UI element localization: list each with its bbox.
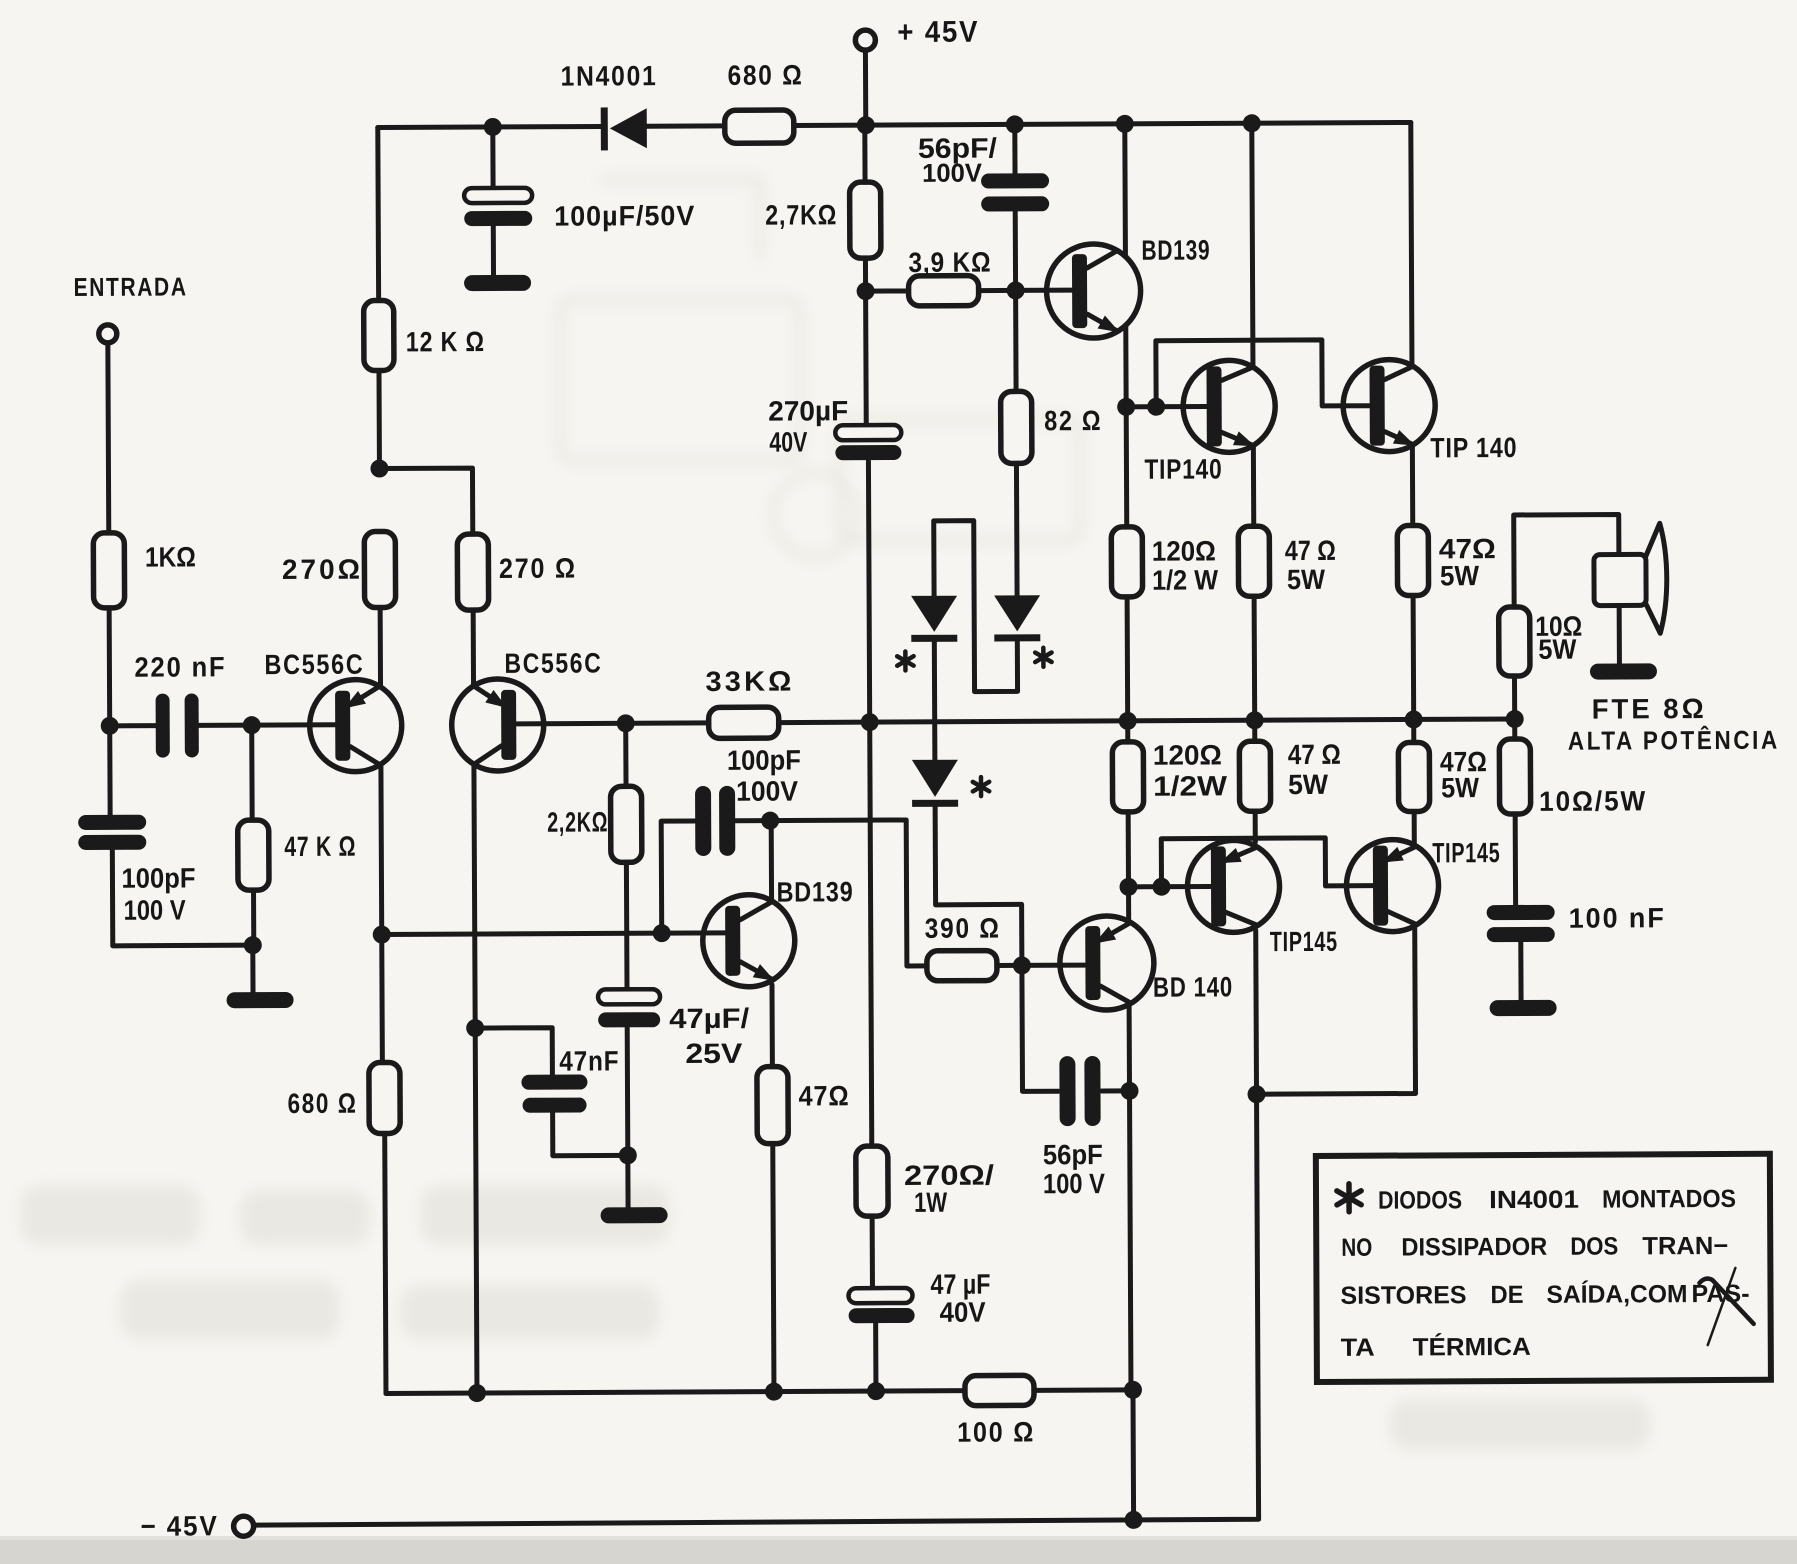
wire 2.7K bottom to bias node [863,258,868,291]
wire output rail [779,719,1515,723]
resistor 120 ohm lower [1112,742,1143,812]
svg-text:40V: 40V [769,426,807,457]
resistor 47 ohm BD139 tail [757,1067,788,1144]
svg-text:120Ω: 120Ω [1152,535,1216,566]
label 100 ohm [957,1416,1035,1447]
wire speaker to ground [1617,605,1622,664]
svg-text:ALTA POTÊNCIA: ALTA POTÊNCIA [1568,725,1780,756]
resistor 10 ohm upper [1499,607,1530,676]
resistor 47 ohm 5W upper mid [1238,526,1269,596]
wire 47 ohm upper right to rail [1411,595,1417,719]
svg-text:SAÍDA,COM: SAÍDA,COM [1546,1279,1687,1309]
svg-text:100 nF: 100 nF [1569,902,1666,933]
wire 100pF left lead [661,821,696,933]
label 47uF 40V [930,1269,990,1328]
svg-text:5W: 5W [1287,564,1326,595]
wire 2.7K top to rail [862,125,867,182]
wire BD140 collector to bottom rail [1130,1091,1131,1390]
svg-text:TRAN−: TRAN− [1642,1232,1728,1260]
wire 47 ohm lower right leads [1411,719,1417,842]
note text line 4 [1341,1332,1531,1362]
wire bias node to 270uF [863,291,869,425]
wire 10 ohm lower to 100nF [1513,814,1518,905]
label 680 ohm tail [287,1088,357,1119]
svg-text:270µF: 270µF [768,395,848,426]
wire 100pF to ground corner [112,849,252,946]
wire TIP145 base row [1129,884,1211,889]
label 47K [284,831,356,862]
transistor TIP145 left [1187,840,1279,932]
node BC556 right base [617,714,635,732]
label 100uF/50V [554,200,695,232]
label 680 ohm top [727,59,803,90]
asterisk D1 [897,651,914,670]
transistor TIP140 left [1183,360,1275,452]
note box frame [1316,1154,1771,1382]
resistor 10 ohm 5W lower [1499,739,1530,814]
svg-text:25V: 25V [685,1038,743,1069]
resistor 120 ohm upper [1111,527,1142,597]
node 56pF lower junction [1120,1082,1138,1100]
svg-text:− 45V: − 45V [141,1510,219,1541]
svg-text:100 V: 100 V [124,894,186,925]
svg-text:100V: 100V [736,775,798,806]
wire 120 ohm lower leads [1125,721,1131,887]
resistor 680 ohm tail [368,934,400,1133]
label 2.2K [547,806,608,837]
ground 100nF [1490,1000,1557,1016]
wire 47 ohm upper mid to rail [1252,596,1258,720]
wire output to 10 ohm [1512,676,1517,719]
svg-text:TIP 140: TIP 140 [1430,432,1517,463]
ground 100uF [464,275,531,291]
label TIP140 left [1144,453,1222,484]
wire 10 ohm to speaker [1514,514,1619,607]
label 1N4001 [560,60,657,91]
svg-text:1W: 1W [914,1187,948,1218]
svg-text:100V: 100V [922,158,983,188]
label 2.7K [765,199,837,230]
capacitor 47uF/40V electrolytic [848,1288,914,1323]
svg-text:SISTORES: SISTORES [1340,1281,1466,1310]
node bottom rail BC556 col [468,1384,486,1402]
label 120 ohm lower [1153,739,1228,801]
svg-text:DIODOS: DIODOS [1378,1186,1462,1214]
svg-text:47 µF: 47 µF [930,1269,990,1300]
node bottom rail right corner [1124,1381,1142,1399]
svg-text:82 Ω: 82 Ω [1044,405,1102,436]
svg-text:100 Ω: 100 Ω [957,1416,1035,1447]
wire BC556 right collector down [474,764,475,1028]
diode D3 1N4001 [912,760,958,807]
label BD139 lower [776,876,853,907]
wire TIP145 right collector down-left [1256,928,1416,1094]
wire 47uF40 to bottom rail [873,1323,878,1391]
node 47 ohm right column on rail [1405,710,1423,728]
wire top-left corner down to 12K [375,128,381,301]
svg-text:BD139: BD139 [1141,234,1210,265]
label 47 ohm 5W upper mid [1285,535,1336,595]
svg-text:BD139: BD139 [776,876,853,907]
note asterisk [1337,1184,1361,1212]
svg-text:1KΩ: 1KΩ [145,541,196,572]
wire TIP140 right emitter to 47 ohm [1410,445,1415,525]
label BD140 [1153,971,1233,1002]
capacitor 220nF [156,693,199,757]
capacitor 100pF 100V [695,786,735,856]
label ENTRADA [73,271,187,302]
wire TIP145 left collector down [1253,930,1259,1094]
svg-text:BD 140: BD 140 [1153,971,1233,1002]
label 100pF 100V [727,744,801,806]
label 12K [406,326,485,357]
bottom scan band [0,1536,1797,1564]
capacitor 47uF/25V electrolytic [598,989,660,1027]
wire 270 left to BC556 left emitter [378,608,383,687]
wire input node down to 100pF [107,726,112,815]
wire tail node to 270 ohm right [379,468,472,534]
svg-text:TIP145: TIP145 [1432,837,1500,868]
label 47uF/25V [669,1003,750,1069]
wire loop to TIP140 right base [1156,340,1369,407]
node 56pF column junction [1006,115,1024,133]
resistor 1K [93,533,124,608]
svg-text:47 Ω: 47 Ω [1285,535,1336,566]
svg-text:DOS: DOS [1570,1232,1618,1260]
wire 120 ohm upper leads [1126,407,1128,721]
label +45V [897,16,979,49]
wire 82 ohm to diode D2 [1014,463,1020,595]
node 47nF top junction [466,1019,484,1037]
svg-text:270 Ω: 270 Ω [499,553,577,584]
node TIP145 base row mid [1152,878,1170,896]
wire feedback [382,933,726,935]
svg-text:40V: 40V [940,1297,986,1328]
wire rail to 100uF [490,127,495,188]
wire bottom rail corner to -45V [1130,1390,1136,1520]
resistor 100 ohm [965,1375,1034,1405]
svg-text:33KΩ: 33KΩ [705,666,794,697]
svg-text:TA: TA [1341,1334,1375,1362]
wire 56pF lower right lead [1102,1088,1130,1093]
resistor 47 ohm 5W lower right [1398,742,1429,811]
svg-text:47 K Ω: 47 K Ω [284,831,356,862]
svg-text:680 Ω: 680 Ω [287,1088,357,1119]
note text line 1 [1378,1185,1736,1215]
svg-text:1N4001: 1N4001 [560,60,657,91]
resistor 47 ohm 5W lower mid [1239,741,1270,811]
wire 47 ohm lower mid leads [1252,720,1258,842]
wire loop to TIP145 right base [1161,838,1372,887]
svg-text:MONTADOS: MONTADOS [1602,1185,1736,1214]
wire top rail right of 680 ohm [794,122,1411,125]
label 270 ohm 1W [904,1160,995,1218]
diode D1 1N4001 [911,596,957,642]
wire 2.2K to 47uF [624,862,630,989]
wire 270 ohm 1W to 47uF40 [870,1216,875,1288]
label BC556C left [264,649,364,680]
label FTE 8 ohm [1592,693,1707,725]
wire 100 ohm to corner [1034,1387,1133,1392]
wire top rail corner down to TIP140 right collector [1411,122,1412,365]
svg-text:ENTRADA: ENTRADA [73,271,187,302]
wire BD139 collector to rail [1122,124,1128,257]
label TIP145 right [1432,837,1500,868]
wire output to 10 ohm 5W lower [1512,719,1517,739]
label 1K [145,541,196,572]
wire bottom rail [386,1391,965,1394]
wire 100nF to ground [1518,942,1523,1001]
label 10 ohm 5W lower [1539,785,1647,817]
node input column [101,717,119,735]
resistor 2.7K [850,182,881,258]
ground speaker [1590,663,1657,679]
label 10 ohm upper [1535,611,1582,665]
wire D1 cathode to D3 [932,642,938,760]
svg-text:BC556C: BC556C [504,647,602,678]
node 47K bottom junction [244,936,262,954]
label 270 ohm left [282,554,363,585]
wire 220nF to BC556 base [199,722,336,728]
svg-text:+ 45V: + 45V [897,16,979,49]
wire diode to 680 ohm resistor [647,123,725,128]
label 270uF 40V [768,395,848,457]
terminal ENTRADA [99,325,117,343]
resistor 82 ohm [1000,290,1032,463]
wire BD139 lower collector up [769,821,774,902]
resistor 2.2K [611,786,642,862]
label 390 ohm [925,913,1001,944]
wire input node to 220nF [110,723,156,728]
capacitor 100pF input [78,815,146,850]
svg-text:5W: 5W [1538,634,1577,665]
transistor BD139 upper (driver) [1046,244,1140,338]
note scribble X over PAS [1699,1268,1753,1345]
wire BD139 lower emitter to 47 ohm [769,985,774,1067]
svg-text:5W: 5W [1441,772,1480,803]
wire BD140 base junction down to 56pF [1022,965,1059,1091]
svg-text:BC556C: BC556C [264,649,364,680]
diode 1N4001 [601,107,647,150]
node TIP145 collectors junction [1247,1085,1265,1103]
wire 47nF bottom lead [553,1112,628,1155]
node 100uF junction [484,118,502,136]
wire 47 ohm tail to bottom rail [773,1144,774,1392]
label BD139 upper [1141,234,1210,265]
wire TIP140 left collector up [1252,123,1253,367]
wire 100uF to ground [491,226,496,276]
wire 270uF to output rail [868,461,869,722]
ghost print-through letters [20,1185,1650,1450]
svg-text:5W: 5W [1440,560,1480,591]
wire TIP140 left emitter to 47 ohm [1251,445,1256,526]
label 56pF top [918,133,997,188]
resistor 12K [364,300,394,370]
wire 390 ohm left loop [735,820,927,967]
resistor 680 ohm top [725,110,794,143]
node 47nF junction [619,1146,637,1164]
ground input network [227,992,294,1008]
node BD140 base junction [1013,956,1031,974]
svg-text:100pF: 100pF [121,862,195,893]
label 220nF [134,651,226,682]
wire 47uF to ground [625,1027,631,1207]
asterisk D2 [1035,648,1052,667]
resistor 390 ohm [927,951,997,981]
wire base row to TIP140 left [1126,404,1206,409]
wire BC556 right collector to bottom rail [475,1028,477,1393]
svg-text:220 nF: 220 nF [134,651,226,682]
wire 680 ohm to bottom rail corner [385,1134,386,1394]
svg-text:680 Ω: 680 Ω [727,59,803,90]
svg-text:DISSIPADOR: DISSIPADOR [1401,1233,1547,1262]
wire -45V rail [252,1094,1259,1525]
label 100pF input [121,862,195,925]
svg-text:5W: 5W [1288,769,1329,800]
svg-text:47µF/: 47µF/ [669,1003,749,1034]
wire 12K to tail node [376,371,381,469]
capacitor 100nF [1487,905,1555,942]
transistor BC556C left (Q1) [309,679,401,771]
transistor BD139 lower [703,895,795,987]
svg-text:390 Ω: 390 Ω [925,913,1001,944]
resistor 47K [237,725,269,945]
svg-text:TIP140: TIP140 [1144,453,1222,484]
resistor 270 ohm 1W [856,1146,888,1216]
label 100nF [1569,902,1666,933]
node feedback-collector junction [373,925,391,943]
svg-text:FTE 8Ω: FTE 8Ω [1592,693,1707,725]
node 100pF left junction [653,924,671,942]
node bootstrap junction [861,713,879,731]
svg-text:120Ω: 120Ω [1153,739,1222,770]
resistor 47 ohm 5W upper right [1397,525,1428,595]
node 120 ohm column on rail [1119,712,1137,730]
capacitor 270uF/40V electrolytic [835,425,901,460]
node 47K top [243,716,261,734]
label 47 ohm 5W lower right [1440,746,1487,803]
node output network [1506,710,1524,728]
node +45V rail junction [857,116,875,134]
svg-text:2,2KΩ: 2,2KΩ [547,806,608,837]
asterisk D3 [973,777,990,796]
label 56pF lower [1043,1139,1106,1199]
resistor 270 ohm left [364,531,395,607]
resistor 270 ohm right [457,534,488,610]
label ALTA POTENCIA [1568,725,1780,756]
transistor TIP145 right [1346,839,1438,931]
wire BD140 emitter up [1126,887,1131,921]
svg-text:10Ω/5W: 10Ω/5W [1539,785,1647,817]
label 47 ohm 5W lower mid [1288,739,1341,800]
svg-text:1/2 W: 1/2 W [1152,564,1219,595]
note text line 3 [1340,1279,1749,1310]
wire BC556 left collector down to feedback node [378,765,384,935]
label TIP145 left [1270,926,1338,957]
resistor 33K [709,707,779,738]
label 3.9K [908,247,991,278]
node differential tail [370,459,388,477]
svg-text:DE: DE [1490,1281,1523,1309]
wire 3.9K to BD139 base [979,288,1073,293]
wire 1K to input node [107,608,113,726]
label 47nF [559,1045,619,1076]
label 270 ohm right [499,553,577,584]
node bias node [857,282,875,300]
note text line 2 [1341,1232,1728,1262]
transistor TIP140 right [1343,359,1435,451]
label 47 ohm 5W upper right [1439,533,1496,591]
wire 390 ohm to BD140 base [997,963,1085,968]
label BC556C right [504,647,602,678]
capacitor 47nF [521,1075,587,1113]
speaker FTE 8 ohm [1594,523,1667,633]
svg-text:12 K Ω: 12 K Ω [406,326,485,357]
wire ENTRADA down to 1K [105,343,111,533]
svg-text:100µF/50V: 100µF/50V [554,200,695,232]
transistor BD140 [1060,916,1154,1010]
svg-text:100pF: 100pF [727,744,801,775]
wire D1 loop top [934,520,1018,691]
label 33K [705,666,794,697]
label -45V [141,1510,219,1541]
svg-text:47Ω: 47Ω [798,1080,849,1111]
svg-text:100 V: 100 V [1043,1168,1105,1199]
wire BD140 collector down [1127,1005,1132,1091]
label 120 ohm upper [1152,535,1219,595]
diode D2 1N4001 [994,595,1040,641]
svg-text:47nF: 47nF [559,1045,619,1076]
svg-text:TIP145: TIP145 [1270,926,1338,957]
capacitor 100uF/50V electrolytic [464,188,532,226]
capacitor 56pF lower [1059,1056,1100,1126]
wire 47K junction to ground [250,945,255,992]
capacitor 56pF top [981,124,1050,290]
transistor BC556C right (Q2) [451,679,543,771]
label 47 ohm tail [798,1080,849,1111]
node BD139 collector junction [1116,115,1134,133]
svg-text:NO: NO [1341,1234,1372,1262]
node TIP140 base row left [1117,398,1135,416]
resistor 3.9K [866,276,979,307]
node 56pF/82 ohm junction [1007,281,1025,299]
node TIP140 collector junction [1243,114,1261,132]
ghost print-through upper [560,180,1080,557]
svg-text:IN4001: IN4001 [1489,1186,1579,1214]
node 100pF-BD139 junction [761,812,779,830]
terminal +45V [855,30,875,125]
label TIP140 right [1430,432,1517,463]
ground 47uF [601,1207,668,1223]
svg-text:1/2W: 1/2W [1153,770,1228,801]
wire BD139 emitter down [1123,325,1128,407]
node bottom rail 47uF col [867,1382,885,1400]
wire top-left rail [378,126,602,127]
svg-text:TÉRMICA: TÉRMICA [1413,1332,1531,1362]
node bottom rail 47 ohm col [765,1383,783,1401]
wire base node to 2.2K [623,723,628,786]
node TIP145 base row left [1119,878,1137,896]
terminal -45V [234,1516,254,1536]
label 82 ohm [1044,405,1102,436]
svg-text:47 Ω: 47 Ω [1288,739,1341,770]
node 47 ohm mid column on rail [1246,711,1264,729]
svg-text:2,7KΩ: 2,7KΩ [765,199,837,230]
svg-text:56pF: 56pF [1043,1139,1103,1170]
svg-text:270Ω: 270Ω [282,554,363,585]
svg-text:3,9 KΩ: 3,9 KΩ [908,247,991,278]
node -45V junction [1125,1511,1143,1529]
